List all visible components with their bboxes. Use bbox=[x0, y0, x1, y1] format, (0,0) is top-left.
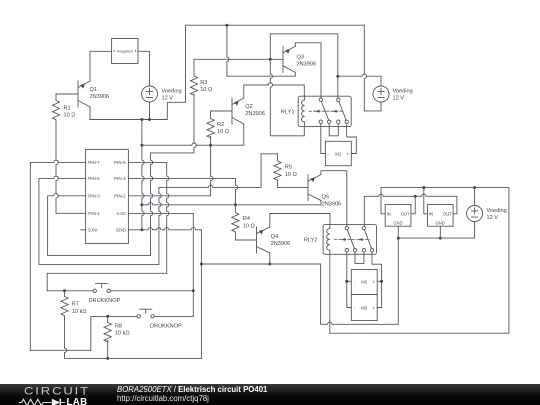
voltage regulator box A bbox=[385, 205, 411, 227]
wire GND bus y238.1 to V3 bottom bbox=[398, 222, 474, 239]
svg-text:Q4: Q4 bbox=[271, 234, 278, 240]
junction dot (64.5,290.8) bbox=[63, 289, 66, 292]
wire R2 bottom to dot on y145.2 then down to PIN-2 row (hops y178.4,y187.4) bbox=[211, 137, 213, 196]
wire magneet left to Q1 emitter bbox=[90, 51, 112, 81]
CircuitLab logo bbox=[24, 386, 119, 405]
wire RLY1 sw1 bottom to M1 left bbox=[321, 123, 326, 153]
svg-text:2N3906: 2N3906 bbox=[245, 111, 265, 117]
pushbutton S2 DRUKKNOP bbox=[137, 309, 182, 329]
junction dot (149.5,119.5) bbox=[148, 118, 151, 121]
wire PIN-7 row left to rail x30.3 (hop R1) bbox=[30, 160, 85, 350]
svg-text:PIN-4: PIN-4 bbox=[114, 176, 126, 181]
wire R3 bottom down to y152.9 then left to channel x150.3 (hop y145.2) bbox=[150, 94, 196, 153]
channel vertical x141.9 from y119.5 to GND row bbox=[142, 120, 144, 230]
svg-text:+: + bbox=[372, 306, 375, 311]
motor M2 bbox=[351, 270, 377, 295]
junction dot (381.6,281.3) bbox=[380, 280, 383, 283]
wire button1 right to 3.3V vertical bbox=[110, 290, 193, 292]
junction dot (270.3,59.3) bbox=[269, 58, 272, 61]
junction dot (107.7,316.4) bbox=[106, 315, 109, 318]
wire RLY1 terminal 4 to M1 right bbox=[347, 123, 357, 153]
wire PIN-3 row left down right to channel x158.9 (hops R1, x150.3) bbox=[48, 194, 151, 256]
svg-text:R4: R4 bbox=[243, 216, 250, 222]
wire GND spur y264 from x201.4 to RLY2 area then GND bus riser (hop coil x329.8) bbox=[201, 238, 398, 324]
wire RLY2 coil bottom to bottom bus y333.2 (no hop) bbox=[329, 254, 331, 333]
svg-text:10 kΩ: 10 kΩ bbox=[72, 309, 87, 315]
wire R1 bottom to PIN-1 (hops PIN-7, PIN-5, PIN-3 rows) bbox=[56, 122, 86, 213]
svg-text:M1: M1 bbox=[335, 152, 342, 157]
relay RLY1 bbox=[281, 96, 351, 126]
wire R8 bottom to lower bus bbox=[107, 341, 109, 359]
svg-text:+: + bbox=[372, 279, 375, 284]
svg-text:R2: R2 bbox=[217, 122, 224, 128]
svg-text:IN: IN bbox=[429, 212, 433, 217]
footer title text bbox=[117, 386, 267, 403]
wire GND row to x201.4 (dot x141.9, hops x150.3,x158.9,x166.7,x193.3) bbox=[128, 228, 201, 230]
junction dot (141.9,119.5) bbox=[140, 118, 143, 121]
channel vertical x158.9 from y187.4 to y258.4 bbox=[159, 187, 161, 264]
svg-text:Voeding: Voeding bbox=[162, 88, 182, 94]
channel vertical x166.7 PIN-6 net down to button1 loop bbox=[47, 162, 169, 290]
pushbutton S1 DRUKKNOP bbox=[89, 284, 121, 304]
wire Q3 emitter to RLY1 switch1 common bbox=[295, 43, 321, 98]
svg-text:PIN-5: PIN-5 bbox=[88, 176, 100, 181]
wire Q1 collector to node row y119.5 bbox=[89, 107, 91, 120]
wire node row y119.5: Q1 collector bus to riser x167.3 bbox=[90, 25, 364, 119]
transistor Q5 2N3906 bbox=[308, 175, 341, 208]
wire magneet right to V1 top bbox=[138, 51, 150, 86]
junction dot (337.8,76.2) bbox=[336, 75, 339, 78]
wire R4 bottom to Q4 base bbox=[235, 232, 256, 240]
svg-text:M2: M2 bbox=[361, 279, 368, 284]
junction dot (141.9,145.2) bbox=[140, 144, 143, 147]
wire x270.3 vertical: y33.8 to coil bottom wire (hops y76.2,y85) bbox=[270, 34, 304, 136]
channel vertical x193.3 3.3V net down to buttons bbox=[192, 213, 194, 316]
svg-text:GND: GND bbox=[436, 220, 445, 225]
wire Q5 emitter up right down to RLY2 switch1 common bbox=[321, 171, 347, 226]
svg-text:DRUKKNOP: DRUKKNOP bbox=[89, 298, 121, 304]
svg-text:10 Ω: 10 Ω bbox=[200, 87, 212, 93]
junction dot (440.3,238.1) bbox=[439, 237, 442, 240]
voltage source V1 Voeding 12V bbox=[142, 86, 182, 102]
junction dot (398.3,238.1) bbox=[397, 237, 400, 240]
svg-text:Voeding: Voeding bbox=[487, 208, 507, 214]
svg-text:DRUKKNOP: DRUKKNOP bbox=[150, 323, 182, 329]
motor M3 bbox=[351, 295, 377, 321]
wire B.IN riser (hop y196.3) bbox=[424, 188, 428, 214]
junction dot (201.4,264) bbox=[200, 263, 203, 266]
wire top dot down x226.9 (hop y59.3) to y76.2 then right to Q3 collector bbox=[227, 25, 295, 76]
junction dot (210.6,145.2) bbox=[209, 144, 212, 147]
svg-text:2N3906: 2N3906 bbox=[90, 94, 110, 100]
wire B GND pin down to bus bbox=[439, 226, 441, 238]
junction dot (423.8,187.6) bbox=[422, 186, 425, 189]
voltage source V2 Voeding 12V bbox=[373, 86, 413, 102]
wire row y204.8 from x141.9 to Q5 collector (hops x150.3,x158.9,x166.7) bbox=[142, 201, 321, 205]
svg-text:R5: R5 bbox=[285, 165, 292, 171]
junction dot (346.8,281.3) bbox=[345, 280, 348, 283]
junction dot (193.3,290.8) bbox=[192, 289, 195, 292]
wire PIN-7 rail bottom bus to riser x90.8 (hop R7) bbox=[30, 316, 137, 350]
wire regulator A OUT riser bbox=[411, 196, 415, 214]
transistor Q4 2N3906 bbox=[257, 227, 291, 253]
svg-text:RLY1: RLY1 bbox=[281, 109, 295, 115]
svg-text:GND: GND bbox=[393, 220, 402, 225]
svg-text:Voeding: Voeding bbox=[393, 88, 413, 94]
wire Q1 base to R1 bbox=[56, 93, 78, 95]
junction dot (269.8,264) bbox=[268, 263, 271, 266]
resistor R8 10k bbox=[104, 316, 130, 341]
junction dot (474.6,187.6) bbox=[473, 186, 476, 189]
wire Q2 base to R2 top bbox=[211, 110, 232, 112]
svg-text:PIN-2: PIN-2 bbox=[114, 194, 126, 199]
wire PIN-5 row left down right to channel x150.3 (hop R1) bbox=[39, 176, 159, 264]
junction dot (141.9,229.8) bbox=[140, 228, 143, 231]
svg-text:R1: R1 bbox=[64, 105, 71, 111]
wire PIN-4 row to R4 drop x235.4 (hops x141.9,x150.3,x166.7,R2) bbox=[128, 178, 237, 204]
svg-text:R7: R7 bbox=[72, 302, 79, 308]
svg-text:12 V: 12 V bbox=[162, 96, 174, 102]
wire bottom bus y333.2 from coil to right rail bbox=[330, 332, 509, 334]
svg-text:R8: R8 bbox=[115, 324, 122, 330]
wire A.IN riser (hop y196.3) bbox=[381, 188, 385, 214]
wire net x270.3: corner y33.8 right to x337.8 down to RLY1 switch2 common bbox=[270, 34, 338, 98]
svg-text:-: - bbox=[354, 279, 356, 284]
svg-text:PIN-3: PIN-3 bbox=[88, 194, 100, 199]
junction dot (107.7,358.4) bbox=[106, 357, 109, 360]
resistor R1 10ohm bbox=[52, 94, 75, 122]
logo resistor and diode glyph bbox=[19, 399, 65, 405]
svg-text:10 Ω: 10 Ω bbox=[243, 223, 255, 229]
wire dot x337.8 to V2 top (hop x364.3) bbox=[338, 74, 381, 86]
big vertical x364.3 from top bus down to V2 bottom corner (hop y76.2) bbox=[364, 25, 366, 111]
transistor Q3 2N3906 bbox=[283, 46, 316, 72]
junction dot (415.2,196.3) bbox=[414, 195, 417, 198]
transistor Q2 2N3906 bbox=[232, 98, 265, 124]
svg-text:RLY2: RLY2 bbox=[304, 238, 318, 244]
junction dot (226.9,25.2) bbox=[225, 24, 228, 27]
svg-text:Q3: Q3 bbox=[297, 55, 304, 61]
channel vertical x201.4 GND net down to bottom bus bbox=[200, 230, 202, 359]
wire V1 bottom to node (149.5,119.5) bbox=[149, 102, 151, 120]
wire R3 top to Q3 base (hop x226.9) bbox=[194, 58, 283, 60]
resistor R5 10ohm bbox=[274, 154, 297, 180]
wire RLY2 terminal 4 to M2/M3 right bbox=[372, 252, 382, 308]
wire PIN-2 row to R2 bottom (hops x141.9,x150.3,x158.9,x166.7) bbox=[128, 195, 210, 197]
svg-text:PIN-6: PIN-6 bbox=[114, 160, 126, 165]
relay RLY2 bbox=[304, 225, 377, 255]
wire PIN-6 row to channel x166.7 (hops x141.9,x150.3) bbox=[128, 161, 166, 163]
pin 5.0V stub bbox=[81, 229, 86, 231]
svg-text:PIN-1: PIN-1 bbox=[88, 211, 100, 216]
wire RLY2 switch2 common riser and W1 y196.3 to regulator OUT pins (hops x381,x423.8) bbox=[364, 194, 457, 226]
svg-text:IN: IN bbox=[387, 212, 391, 217]
magneet box X1 bbox=[112, 39, 138, 64]
wire RLY2 sw1 bottom to M2/M3 left bbox=[347, 252, 352, 308]
svg-text:Q1: Q1 bbox=[90, 87, 97, 93]
transistor Q1 2N3906 bbox=[78, 81, 109, 107]
svg-text:Q2: Q2 bbox=[245, 104, 252, 110]
junction dot (235.4,204.8) bbox=[234, 203, 237, 206]
svg-text:-: - bbox=[328, 152, 330, 157]
motor M1 bbox=[325, 141, 351, 165]
svg-text:-: - bbox=[354, 306, 356, 311]
channel vertical x150.3 from y152.9 to y264.3 bbox=[151, 153, 153, 256]
svg-text:M3: M3 bbox=[361, 306, 368, 311]
svg-text:OUT: OUT bbox=[401, 212, 410, 217]
svg-text:OUT: OUT bbox=[443, 212, 452, 217]
svg-text:R3: R3 bbox=[200, 80, 207, 86]
wire V2 bottom left to big vertical x364.3 bbox=[364, 102, 381, 111]
resistor R4 10ohm bbox=[232, 205, 255, 233]
svg-text:10 Ω: 10 Ω bbox=[64, 113, 76, 119]
voltage source V3 Voeding 12V bbox=[467, 206, 507, 222]
svg-text:12 V: 12 V bbox=[487, 215, 499, 221]
wire R5 bottom to Q5 base bbox=[278, 180, 309, 187]
svg-text:+: + bbox=[346, 152, 349, 157]
svg-text:PIN-7: PIN-7 bbox=[88, 160, 100, 165]
junction dot (141.9,204.8) bbox=[140, 203, 143, 206]
svg-text:12 V: 12 V bbox=[393, 96, 405, 102]
svg-text:Q5: Q5 bbox=[322, 194, 329, 200]
svg-text:10 Ω: 10 Ω bbox=[217, 129, 229, 135]
svg-text:2N3906: 2N3906 bbox=[297, 62, 317, 68]
wire 12V bus y187.6 from A.IN to right rail bbox=[381, 188, 509, 334]
svg-text:GND: GND bbox=[116, 228, 127, 233]
wire A GND pin down (continues to y324.3 riser) bbox=[397, 226, 399, 238]
wire y187.4 row from x158.9 over R5 loop to Q5 base (hops R2,x235.4) bbox=[159, 154, 278, 188]
svg-text:5.0V: 5.0V bbox=[88, 228, 97, 233]
voltage regulator box B bbox=[427, 205, 453, 227]
wire RLY2 jumper terminals 2-3 bbox=[355, 252, 364, 264]
wire RLY1 jumper terminals 2-3 bbox=[329, 123, 338, 135]
wire Q4 emitter up right down to RLY2 coil top bbox=[270, 214, 330, 228]
resistor R7 10k bbox=[61, 291, 87, 320]
wire button2 right to 3.3V vertical corner bbox=[154, 315, 193, 317]
svg-text:10 kΩ: 10 kΩ bbox=[115, 331, 130, 337]
resistor R3 10ohm bbox=[190, 59, 212, 95]
wire row y145.2 from x141.9 to Q2 collector riser (hop x194) bbox=[142, 124, 244, 145]
svg-text:magneet: magneet bbox=[117, 49, 133, 54]
wire R7 bottom to lower bus (hop upper bus) bbox=[65, 320, 202, 359]
wire Q4 collector down to GND spur y264 bbox=[269, 253, 271, 264]
wire 3.3V row to x193.3 (hops x141.9,x150.3,x158.9,x166.7) bbox=[128, 212, 193, 214]
microcontroller block U1 bbox=[86, 149, 129, 243]
svg-text:2N3906: 2N3906 bbox=[271, 241, 291, 247]
wire Q2 emitter riser to RLY1 coil top (hop x270.3) bbox=[244, 83, 304, 98]
resistor R2 10ohm bbox=[207, 111, 229, 138]
svg-text:3.3V: 3.3V bbox=[116, 211, 125, 216]
wire V3 top to 12V bus bbox=[474, 188, 476, 206]
wire button1 left segment with R7 dot bbox=[47, 290, 93, 292]
svg-text:2N3906: 2N3906 bbox=[322, 202, 342, 208]
svg-text:10 Ω: 10 Ω bbox=[285, 172, 297, 178]
